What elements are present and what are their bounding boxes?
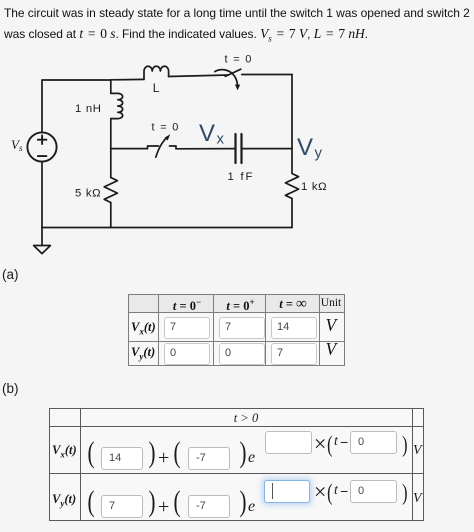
svg-text:Vy: Vy — [297, 134, 323, 162]
switch S1 (opening, t=0) — [215, 69, 241, 90]
capacitor 1fF — [236, 134, 242, 163]
row labels — [131, 320, 156, 337]
row 2 inputs — [164, 343, 210, 365]
wire right vertical (top) — [291, 75, 293, 149]
wire source bottom — [41, 162, 43, 228]
wire bus upper — [110, 80, 112, 93]
wire bus bottom — [110, 203, 112, 228]
table (b) — [49, 408, 424, 521]
grid lines — [50, 426, 423, 427]
svg-text:t = 0: t = 0 — [152, 122, 180, 134]
svg-text:1 kΩ: 1 kΩ — [301, 181, 327, 193]
header texts — [160, 297, 214, 314]
wire source top to node A — [42, 80, 111, 133]
resistor 1k — [285, 149, 298, 199]
section label (a) — [2, 267, 19, 282]
table (a) — [128, 294, 345, 366]
ground — [34, 246, 51, 254]
wire capacitor to right bus — [242, 148, 293, 150]
wire right vertical bottom — [291, 199, 293, 228]
wire switch 1 to top-right corner — [242, 74, 292, 76]
resistor 5k — [104, 178, 117, 203]
row labels — [52, 443, 77, 460]
row 1 inputs — [164, 317, 210, 339]
section label (b) — [2, 381, 19, 396]
wire to ground — [41, 228, 43, 246]
wire bus middle — [110, 119, 112, 178]
problem text — [4, 3, 474, 49]
inductor L — [144, 66, 169, 79]
switch S2 (closing, t=0) — [148, 134, 177, 157]
svg-text:L: L — [153, 81, 160, 95]
wire switch 2 to capacitor — [176, 148, 235, 150]
svg-text:5 kΩ: 5 kΩ — [75, 188, 101, 200]
svg-text:Vx: Vx — [199, 120, 225, 148]
wire mid left — [111, 148, 148, 150]
voltage source Vs — [27, 132, 56, 161]
wire node A to inductor L — [111, 78, 144, 80]
svg-text:Vs: Vs — [11, 137, 23, 153]
svg-text:t = 0: t = 0 — [225, 54, 253, 66]
header t>0 — [80, 411, 412, 426]
inductor 1nH — [111, 93, 123, 118]
svg-text:1 fF: 1 fF — [228, 171, 255, 183]
grid lines — [129, 312, 344, 313]
wire bottom — [42, 227, 292, 229]
circuit schematic SVG — [0, 0, 380, 270]
wire inductor L to switch 1 — [169, 75, 229, 77]
header background — [129, 295, 344, 312]
svg-text:1 nH: 1 nH — [75, 103, 102, 115]
